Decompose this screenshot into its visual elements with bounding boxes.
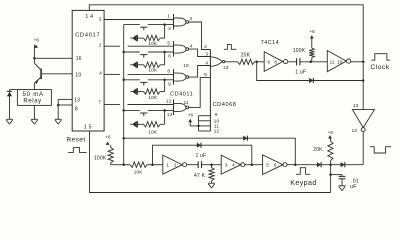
- diode D6 to inverter C output: [341, 162, 345, 167]
- wire CD4017 output pin to gate input row 2 (broken at bus crossing): [104, 45, 120, 47]
- diode D3 oscillator 2 feedback: [197, 143, 201, 148]
- svg-text:13: 13: [74, 98, 80, 104]
- svg-text:11: 11: [330, 60, 335, 65]
- svg-text:CD4011: CD4011: [170, 92, 193, 98]
- capacitor C2 1uF bottom: [197, 161, 199, 168]
- 8-input NAND U3 CD4068 input bar: [209, 50, 211, 132]
- wire +6 arrow to 20K: [329, 139, 331, 142]
- svg-text:3: 3: [225, 163, 228, 168]
- wire +6 to unused inputs: [190, 122, 198, 126]
- node bus junction row 3: [122, 79, 125, 82]
- wire relay bottom to ground: [33, 105, 35, 119]
- svg-text:100K: 100K: [293, 48, 306, 54]
- pushbutton actuator of S2: [140, 54, 147, 56]
- wire gate B output pin 4 to CD4068 pin 3: [189, 49, 211, 56]
- svg-text:3: 3: [99, 16, 102, 21]
- ground at .01uF cap: [339, 185, 346, 187]
- capacitor C1 1uF timing cap: [296, 58, 298, 65]
- wire inverter B output to clock line: [351, 61, 364, 63]
- NAND gate U2A CD4011: [173, 14, 175, 30]
- wire 47K to ground: [211, 181, 213, 184]
- svg-text:13: 13: [353, 103, 359, 108]
- resistor 10K row 3: [144, 89, 161, 94]
- svg-text:4: 4: [99, 71, 102, 76]
- svg-text:4: 4: [190, 44, 193, 49]
- wire relay top to flyback diode: [10, 89, 18, 91]
- svg-text:6: 6: [168, 54, 171, 59]
- svg-text:10: 10: [337, 60, 343, 65]
- wire CD4017 output pin to gate input row 3 (broken at bus crossing): [104, 73, 120, 75]
- svg-text:+6: +6: [105, 135, 111, 140]
- wire inverter C output down to keypad line: [362, 132, 364, 165]
- svg-text:12: 12: [166, 99, 172, 104]
- wire gate D output pin 11 to CD4068 pin 5: [189, 77, 211, 107]
- node cap branch: [329, 173, 332, 176]
- node bus junction row 2: [122, 51, 125, 54]
- node 74C14 input junction: [255, 61, 258, 64]
- svg-text:10: 10: [183, 63, 189, 68]
- diode D2 oscillator feedback: [309, 78, 313, 83]
- svg-text:3: 3: [189, 16, 192, 21]
- svg-text:1 4: 1 4: [85, 14, 93, 20]
- svg-text:74C14: 74C14: [261, 40, 279, 46]
- node timing RC junction: [309, 61, 312, 64]
- svg-text:1: 1: [167, 14, 170, 19]
- svg-text:CD4068: CD4068: [213, 102, 237, 108]
- resistor 10K row 2: [144, 62, 161, 67]
- svg-text:+6: +6: [328, 130, 334, 135]
- svg-text:2: 2: [204, 44, 207, 49]
- node feedback at clock line: [362, 79, 365, 82]
- node bus junction row 4: [122, 109, 125, 112]
- node pin 8 junction: [57, 104, 60, 107]
- resistor 20K top: [238, 59, 255, 64]
- wire diode to resistor row 1: [137, 37, 143, 39]
- node switch S4 to resistor junction: [163, 109, 166, 112]
- wire bus node to 10K: [124, 164, 130, 166]
- svg-text:9: 9: [168, 81, 171, 86]
- NAND gate U2B CD4011: [173, 41, 175, 57]
- top clock rail from pin 14 of CD4017 to 74C14 clock line: [89, 5, 363, 110]
- wire cap to inverter B input: [300, 61, 327, 63]
- svg-text:10K: 10K: [148, 95, 158, 100]
- inverter U5A pins 1-2: [163, 155, 183, 174]
- svg-text:1 uF: 1 uF: [195, 153, 206, 159]
- svg-text:8: 8: [167, 69, 170, 74]
- wire switch node down to resistor row 2: [164, 52, 166, 65]
- wire CD4068 output to 20K: [225, 61, 238, 63]
- svg-text:9: 9: [215, 112, 218, 117]
- resistor 10K bottom: [130, 162, 147, 167]
- node unused input tie: [197, 125, 200, 128]
- clock output waveform: [371, 54, 390, 61]
- reset pulse waveform symbol: [68, 148, 87, 153]
- node 20K pull-up junction: [329, 163, 332, 166]
- wire diode to resistor row 4: [137, 123, 143, 125]
- 8-input NAND U3 CD4068 gate body: [211, 57, 223, 67]
- svg-text:1 5: 1 5: [84, 124, 92, 130]
- ground at relay: [31, 118, 38, 120]
- svg-text:100K: 100K: [94, 155, 107, 161]
- svg-text:7: 7: [98, 99, 101, 104]
- wire +6 to collector / pin16 node: [33, 45, 35, 64]
- resistor 47K body: [209, 168, 214, 181]
- svg-text:10K: 10K: [148, 68, 158, 73]
- wire 20K to inverter input: [255, 61, 265, 63]
- transistor Q1 NPN relay driver: [34, 63, 40, 69]
- wire resistor to corner row 1: [160, 37, 164, 39]
- svg-text:+6: +6: [34, 38, 40, 43]
- svg-text:10K: 10K: [148, 129, 158, 134]
- wire diode stub row 2: [130, 64, 132, 66]
- svg-text:Keypad: Keypad: [290, 180, 316, 187]
- wire resistor to corner row 4: [160, 123, 164, 125]
- svg-text:3: 3: [205, 51, 208, 56]
- keypad diode row 4: [132, 121, 137, 127]
- keypad switch S4 line row 4: [124, 109, 140, 111]
- capacitor C3 .01 uF: [341, 175, 343, 177]
- node switch S3 to resistor junction: [163, 79, 166, 82]
- wire resistor to corner row 3: [160, 91, 164, 93]
- wire switch node down to resistor row 3: [164, 80, 166, 92]
- node oscillator 2 output: [251, 163, 254, 166]
- node buffered keypad tone output: [294, 163, 297, 166]
- wire emitter down to relay: [33, 82, 35, 89]
- inverter U5C pins 5-6: [263, 155, 283, 175]
- wire CD4017 output pin to gate input row 4 (broken at bus crossing): [104, 104, 120, 106]
- wire +6 arrow to 100K bottom: [110, 145, 112, 148]
- svg-text:8: 8: [75, 107, 78, 113]
- wire CD4017 pin 10 line to base: [42, 73, 72, 75]
- svg-text:5: 5: [266, 163, 269, 168]
- wire CD4017 pin 13 line: [58, 98, 72, 100]
- svg-text:20K: 20K: [241, 53, 251, 59]
- resistor 20K bottom pull-up: [328, 141, 333, 161]
- node oscillator 2 input: [151, 163, 154, 166]
- svg-text:9: 9: [267, 60, 270, 65]
- wire diode to resistor row 2: [137, 64, 143, 66]
- keypad switch S3 line row 3: [124, 79, 140, 81]
- node switch S1 to resistor junction: [163, 23, 166, 26]
- wire diode D5 to 20K node: [321, 164, 340, 166]
- node keypad bus bottom junction: [122, 163, 125, 166]
- svg-text:Clock: Clock: [371, 64, 390, 71]
- wire gate C output pin 10 to CD4068 pin 4: [189, 66, 211, 78]
- ground at pins 13 and 8: [55, 118, 62, 120]
- pushbutton actuator of S4: [140, 112, 147, 114]
- IC U1 CD4017 decade counter box: [72, 10, 104, 131]
- wire keypad line A from bus to buffer output: [124, 138, 296, 165]
- wire feedback down to inverter 2 output: [251, 145, 253, 165]
- keypad tone waveform: [296, 168, 310, 175]
- keypad common bus vertical: [123, 25, 125, 165]
- diode D1 flyback across relay: [9, 90, 11, 92]
- node switch S2 to resistor junction: [163, 51, 166, 54]
- svg-text:1: 1: [166, 163, 169, 168]
- wire diode stub row 3: [130, 91, 132, 93]
- wire 100K bottom to bus node: [111, 163, 124, 165]
- node collector junction with pin 16 line: [33, 57, 36, 60]
- wire inverter 3 output right: [287, 164, 317, 166]
- keypad switch S1 line row 1: [124, 24, 140, 26]
- CD4068 unused input stubs pins 9-12 tied high: [198, 116, 200, 131]
- svg-text:4: 4: [232, 163, 235, 168]
- svg-text:12: 12: [214, 129, 220, 134]
- node clock output junction: [362, 61, 365, 64]
- resistor 10K row 1: [144, 35, 161, 40]
- svg-text:47 K: 47 K: [194, 173, 206, 179]
- wire oscillator 2 feedback line B: [153, 145, 252, 165]
- wire CD4017 output pin to gate input row 1: [104, 19, 173, 21]
- svg-text:5: 5: [167, 40, 170, 45]
- svg-text:10K: 10K: [148, 41, 158, 46]
- keypad switch S2 line row 2: [124, 51, 140, 53]
- wire CD4017 pin 15 reset line down and bottom rail: [90, 131, 331, 193]
- svg-text:2: 2: [174, 163, 177, 168]
- wire gate A output pin 3 to CD4068 pin 2: [189, 22, 211, 50]
- svg-text:12: 12: [352, 128, 358, 133]
- svg-text:11: 11: [184, 100, 189, 105]
- svg-text:Relay: Relay: [23, 99, 41, 105]
- svg-text:16: 16: [76, 56, 82, 62]
- node line A at keypad bus: [122, 137, 125, 140]
- resistor 10K row 4: [144, 122, 161, 127]
- wire 10K to inverter 1 input node: [147, 164, 163, 166]
- svg-text:1 uF: 1 uF: [295, 69, 306, 75]
- ground at 47K: [208, 182, 215, 184]
- svg-text:uF: uF: [350, 184, 356, 190]
- wire inverter 1 output to cap: [187, 164, 199, 166]
- svg-text:10: 10: [75, 72, 81, 78]
- wire node down to bottom rail: [330, 165, 332, 193]
- inverter U5B pins 3-4: [221, 155, 241, 174]
- wire keypad line to inverter C output: [345, 164, 363, 166]
- wire switch node down to resistor row 1: [164, 25, 166, 38]
- resistor 100K pull-up top: [309, 48, 314, 58]
- wire oscillator feedback line: [257, 62, 364, 81]
- svg-text:10K: 10K: [134, 170, 144, 175]
- wire cap to inverter 2 input: [202, 164, 222, 166]
- wire diode stub row 4: [130, 123, 132, 125]
- resistor 47K to ground: [211, 165, 213, 168]
- svg-text:Reset: Reset: [66, 137, 85, 144]
- svg-text:2: 2: [99, 42, 102, 47]
- ground at diode D1: [6, 118, 13, 120]
- wire branch to .01uF cap: [331, 174, 342, 176]
- svg-text:50 mA: 50 mA: [23, 92, 44, 98]
- svg-text:5: 5: [204, 72, 207, 77]
- pushbutton actuator of S1: [140, 26, 147, 28]
- wire +6 arrow to 100K: [311, 39, 313, 49]
- node RC junction bottom: [210, 163, 213, 166]
- inverter U4B 74C14 pins 11-10: [327, 51, 346, 72]
- keypad diode row 1: [132, 35, 137, 41]
- resistor 100K bottom pull-up: [108, 147, 113, 163]
- svg-text:13: 13: [167, 112, 173, 117]
- diode D5 keypad line isolation: [317, 162, 321, 167]
- svg-text:13: 13: [223, 65, 229, 70]
- wire inverter A output to cap: [288, 61, 297, 63]
- wire diode to resistor row 3: [137, 91, 143, 93]
- wire inverter 2 output to inverter 3: [245, 164, 263, 166]
- svg-text:6: 6: [274, 163, 277, 168]
- NAND gate U2D CD4011: [173, 99, 175, 115]
- inverter U4A 74C14 pins 9-8: [264, 52, 283, 72]
- svg-text:4: 4: [205, 60, 208, 65]
- svg-text:CD4017: CD4017: [75, 32, 100, 38]
- waveform at CD4068 output: [224, 44, 236, 49]
- wire 100K to node: [311, 58, 313, 62]
- inverter U4C 74C14 pins 13-12 pointing down: [352, 110, 374, 128]
- waveform at inverter C output: [370, 147, 391, 153]
- svg-text:8: 8: [274, 60, 277, 65]
- keypad diode row 3: [132, 88, 137, 94]
- relay K1 50 mA relay box: [17, 90, 51, 106]
- wire resistor to corner row 2: [160, 64, 164, 66]
- svg-text:+6: +6: [309, 29, 315, 34]
- svg-text:2: 2: [168, 26, 171, 31]
- wire diode stub row 1: [130, 37, 132, 39]
- wire CD4017 pin 8 line: [58, 104, 72, 106]
- diode D4 on line A: [243, 136, 247, 141]
- wire pins 13 and 8 to ground: [57, 99, 59, 119]
- wire CD4017 pin 16 line: [34, 57, 72, 59]
- pushbutton actuator of S3: [140, 81, 147, 83]
- NAND gate U2C CD4011: [173, 69, 175, 85]
- wire switch node down to resistor row 4: [164, 110, 166, 124]
- wire 20K to node: [329, 161, 331, 165]
- svg-text:+6: +6: [188, 113, 194, 118]
- svg-text:20K: 20K: [313, 147, 323, 153]
- keypad diode row 2: [132, 62, 137, 68]
